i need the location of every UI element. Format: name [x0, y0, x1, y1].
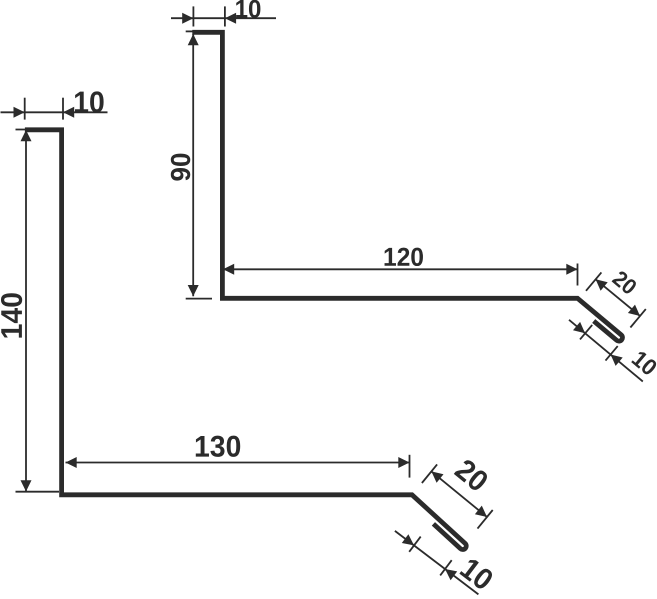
dimension 10 (lower hook width): dim line, extension ticks, inward arrows, label — [1, 111, 108, 113]
dimension 140 (lower web height): dim line, extension lines, arrows, rotated label — [25, 130, 27, 492]
dimension 90 (upper web height): dim line, extension lines, arrows, rotated label — [192, 34, 194, 296]
dimension 10 (upper hook width): dim line, extension ticks, inward arrows, label — [171, 17, 276, 19]
profile P1 outline (lower flashing: 10 hook, 140 web, 130 base, 45-deg 20 flange with 10 hem) — [25, 130, 466, 550]
dimension 130 (lower base length): dim line, right extension line, arrows, label — [66, 462, 410, 464]
dimension 20 (upper flange length): dim line, extension ticks, arrows, rotated label — [596, 279, 640, 316]
dimension 120 (upper base length): dim line, right extension line, arrows, label — [223, 268, 578, 270]
dimension 10 (lower hem fold): dim line with tails, extension ticks, inward arrows, rotated label — [395, 531, 479, 595]
profile P2 outline (upper flashing: 10 hook, 90 web, 120 base, 45-deg 20 flange with 10 hem) — [192, 32, 622, 341]
dimension 20 (lower flange length): dim line, extension ticks, arrows, rotated label — [431, 471, 487, 517]
dimension 10 (upper hem fold): dim line with tails, extension ticks, inward arrows, rotated label — [569, 320, 643, 382]
